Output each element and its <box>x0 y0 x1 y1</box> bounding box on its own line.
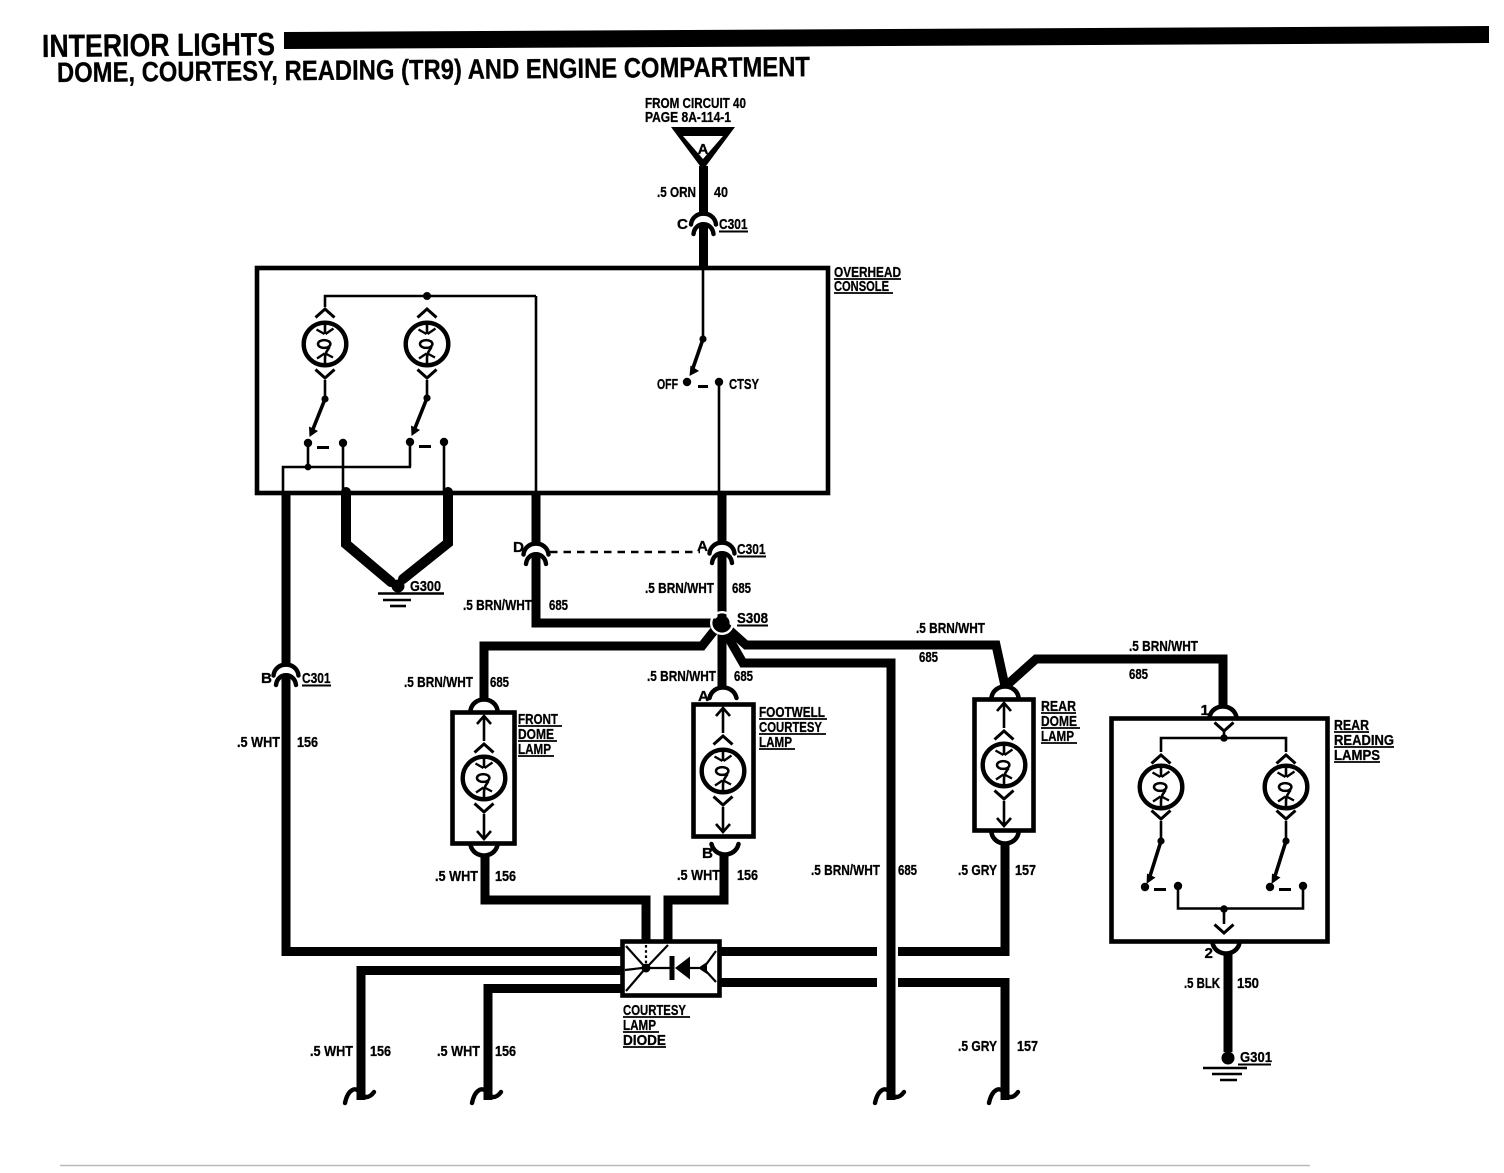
lamp reading right <box>1277 755 1296 764</box>
CONSOLE <box>257 264 901 493</box>
box REAR READING LAMPS <box>1112 719 1328 942</box>
svg-text:C301: C301 <box>302 670 331 687</box>
scanner edge line <box>60 1165 1310 1167</box>
wire reading bus <box>1161 738 1286 752</box>
svg-text:S308: S308 <box>737 610 768 627</box>
svg-text:685: 685 <box>898 862 917 879</box>
svg-text:156: 156 <box>737 867 758 884</box>
svg-text:685: 685 <box>1129 666 1148 683</box>
wire A to splice S308 <box>718 553 727 620</box>
node diode anode junction <box>642 964 651 973</box>
wire to console <box>699 224 708 269</box>
svg-text:.5 WHT: .5 WHT <box>310 1043 354 1060</box>
switch OFF/CTSY <box>702 270 705 338</box>
connector rear dome lamp top <box>992 687 1019 698</box>
pin tie from bottom-left corner <box>626 970 644 991</box>
connector footwell lamp bottom <box>712 844 739 855</box>
connector footwell lamp top <box>710 688 737 699</box>
wire break <box>875 1089 904 1103</box>
wire S308 to rear dome lamp <box>726 627 1005 686</box>
svg-text:.5 BRN/WHT: .5 BRN/WHT <box>645 580 715 597</box>
wire rear dome to rear reading lamps <box>1007 659 1223 705</box>
svg-text:.5 BRN/WHT: .5 BRN/WHT <box>404 674 474 691</box>
svg-text:A: A <box>698 141 709 158</box>
svg-text:A: A <box>697 538 708 555</box>
svg-text:685: 685 <box>732 580 751 597</box>
svg-text:.5 BRN/WHT: .5 BRN/WHT <box>916 620 986 637</box>
wire front dome to diode <box>485 856 646 943</box>
svg-text:.5 WHT: .5 WHT <box>437 1043 481 1060</box>
svg-text:2: 2 <box>1205 945 1213 962</box>
connector front dome lamp bottom <box>471 845 498 856</box>
splice S308 <box>715 616 729 630</box>
wire diode right bottom segment <box>720 978 877 987</box>
svg-text:C301: C301 <box>737 541 766 558</box>
lamp REAR DOME LAMP <box>975 700 1034 831</box>
DIODE <box>310 942 1038 1104</box>
svg-text:C301: C301 <box>719 216 748 233</box>
pin tie to bottom-right corner <box>705 970 716 982</box>
wire break <box>472 1089 501 1103</box>
dotted pin tie <box>645 945 647 963</box>
node reading bus <box>1220 734 1228 742</box>
switch reading left <box>1157 837 1164 844</box>
node bus junction <box>423 292 431 300</box>
svg-text:.5 BRN/WHT: .5 BRN/WHT <box>463 597 533 614</box>
wire B to courtesy diode <box>286 675 624 952</box>
svg-text:.5 BRN/WHT: .5 BRN/WHT <box>1129 638 1199 655</box>
lamp FOOTWELL COURTESY LAMP <box>694 705 754 837</box>
wire lamp to switch <box>324 380 327 398</box>
wire diode right top to rear dome (gap at crossing) <box>720 947 877 956</box>
box courtesy lamp diode <box>623 942 720 996</box>
wire break <box>989 1089 1018 1103</box>
svg-text:.5 BRN/WHT: .5 BRN/WHT <box>811 862 881 879</box>
off-page triangle A <box>671 127 735 170</box>
splice S308 dot <box>711 612 733 634</box>
pin tie from left middle <box>625 968 642 970</box>
node reading out junction <box>1220 905 1228 913</box>
svg-text:156: 156 <box>370 1043 391 1060</box>
svg-text:CTSY: CTSY <box>729 376 759 393</box>
connector rear dome lamp bottom <box>992 833 1019 844</box>
svg-text:D: D <box>513 539 524 556</box>
ground G300 <box>392 580 405 593</box>
overhead console box <box>257 268 828 493</box>
wire console to C301 pin D <box>532 492 541 545</box>
connector C301 pin A <box>710 543 735 563</box>
lamp reading left <box>1152 755 1171 764</box>
wire entry pin 1 <box>1215 723 1234 732</box>
wire switch out left <box>308 446 411 467</box>
connector rear reading pin 1 <box>1210 707 1237 718</box>
wire switch out right <box>409 446 412 467</box>
svg-text:685: 685 <box>734 668 753 685</box>
LAMPS <box>435 687 1080 952</box>
wire console to G300 left <box>346 492 391 582</box>
wire footwell to diode <box>668 855 724 943</box>
wire console to C301 pin B <box>282 492 291 666</box>
svg-text:DOME, COURTESY, READING (TR9): DOME, COURTESY, READING (TR9) AND ENGINE… <box>57 51 810 88</box>
title bar <box>284 26 1489 49</box>
svg-text:OFF: OFF <box>657 376 678 393</box>
lamp console left <box>316 309 335 318</box>
svg-text:C: C <box>677 216 688 233</box>
switch console right <box>423 394 430 401</box>
wire console to G300 right <box>403 492 448 579</box>
svg-text:.5 WHT: .5 WHT <box>237 734 281 751</box>
svg-text:PAGE 8A-114-1: PAGE 8A-114-1 <box>645 109 731 126</box>
MIDDLE <box>237 492 1223 1103</box>
svg-text:.5 BRN/WHT: .5 BRN/WHT <box>647 668 717 685</box>
svg-text:157: 157 <box>1015 862 1036 879</box>
pin tie from top-left corner <box>626 946 644 966</box>
node diode cathode junction <box>698 962 707 974</box>
wire break <box>345 1089 374 1103</box>
svg-text:150: 150 <box>1237 975 1259 992</box>
wire diode left middle to break <box>361 971 622 1101</box>
pin tie to top-right corner <box>705 951 716 966</box>
connector C301 pin D <box>524 544 549 564</box>
svg-text:157: 157 <box>1017 1038 1038 1055</box>
wire rear dome to diode <box>898 844 1005 952</box>
switch reading right <box>1282 837 1289 844</box>
wire right bottom to gry down <box>898 983 1005 1101</box>
lamp console right <box>418 309 437 318</box>
wire CTSY down <box>718 386 721 491</box>
wire to ground contact left <box>342 446 345 491</box>
svg-text:.5 GRY: .5 GRY <box>958 1038 997 1055</box>
connector front dome lamp top <box>471 700 498 711</box>
pin tie from footwell entry <box>648 945 668 966</box>
READING <box>1112 702 1395 1080</box>
connector rear reading pin 2 <box>1213 943 1240 954</box>
svg-text:156: 156 <box>495 1043 516 1060</box>
svg-text:.5 GRY: .5 GRY <box>958 862 997 879</box>
wire circuit 40 from triangle <box>699 166 708 214</box>
wire switch right out <box>1224 890 1303 909</box>
wire to ground contact right <box>443 446 446 491</box>
wire diode bottom-left to break <box>488 989 622 1101</box>
connector C301 pin B <box>274 665 299 685</box>
wire exit pin 2 <box>1223 909 1226 924</box>
wire CTSY to C301 pin A <box>718 492 727 544</box>
wire D to splice S308 <box>536 554 718 623</box>
wire lamp to switch <box>426 380 429 397</box>
lamp FRONT DOME LAMP <box>453 713 515 844</box>
dashed connector tie D to A <box>550 551 700 554</box>
svg-text:685: 685 <box>919 649 938 666</box>
diode D1 <box>650 967 670 969</box>
svg-text:156: 156 <box>495 868 516 885</box>
switch console left <box>321 395 328 402</box>
wire S308 to footwell lamp <box>718 627 727 689</box>
svg-text:.5 WHT: .5 WHT <box>677 867 721 884</box>
wire right drop <box>535 296 538 491</box>
wire S308 center drop <box>724 630 891 1100</box>
wire S308 to front dome lamp <box>484 627 717 700</box>
svg-text:.5 WHT: .5 WHT <box>435 868 479 885</box>
svg-text:.5 BLK: .5 BLK <box>1184 975 1220 992</box>
svg-text:156: 156 <box>297 734 318 751</box>
FEED <box>645 95 748 269</box>
svg-text:G301: G301 <box>1240 1049 1272 1066</box>
svg-text:685: 685 <box>490 674 509 691</box>
ground G301 <box>1222 1052 1235 1065</box>
wire pin 2 to G301 <box>1224 954 1233 1052</box>
wire switch left out <box>1178 890 1224 909</box>
connector C301 pin C <box>691 214 716 234</box>
svg-text:B: B <box>261 670 272 687</box>
svg-text:40: 40 <box>714 184 728 201</box>
svg-text:.5 ORN: .5 ORN <box>657 184 696 201</box>
wire console bus top <box>325 296 536 307</box>
svg-text:685: 685 <box>549 597 568 614</box>
